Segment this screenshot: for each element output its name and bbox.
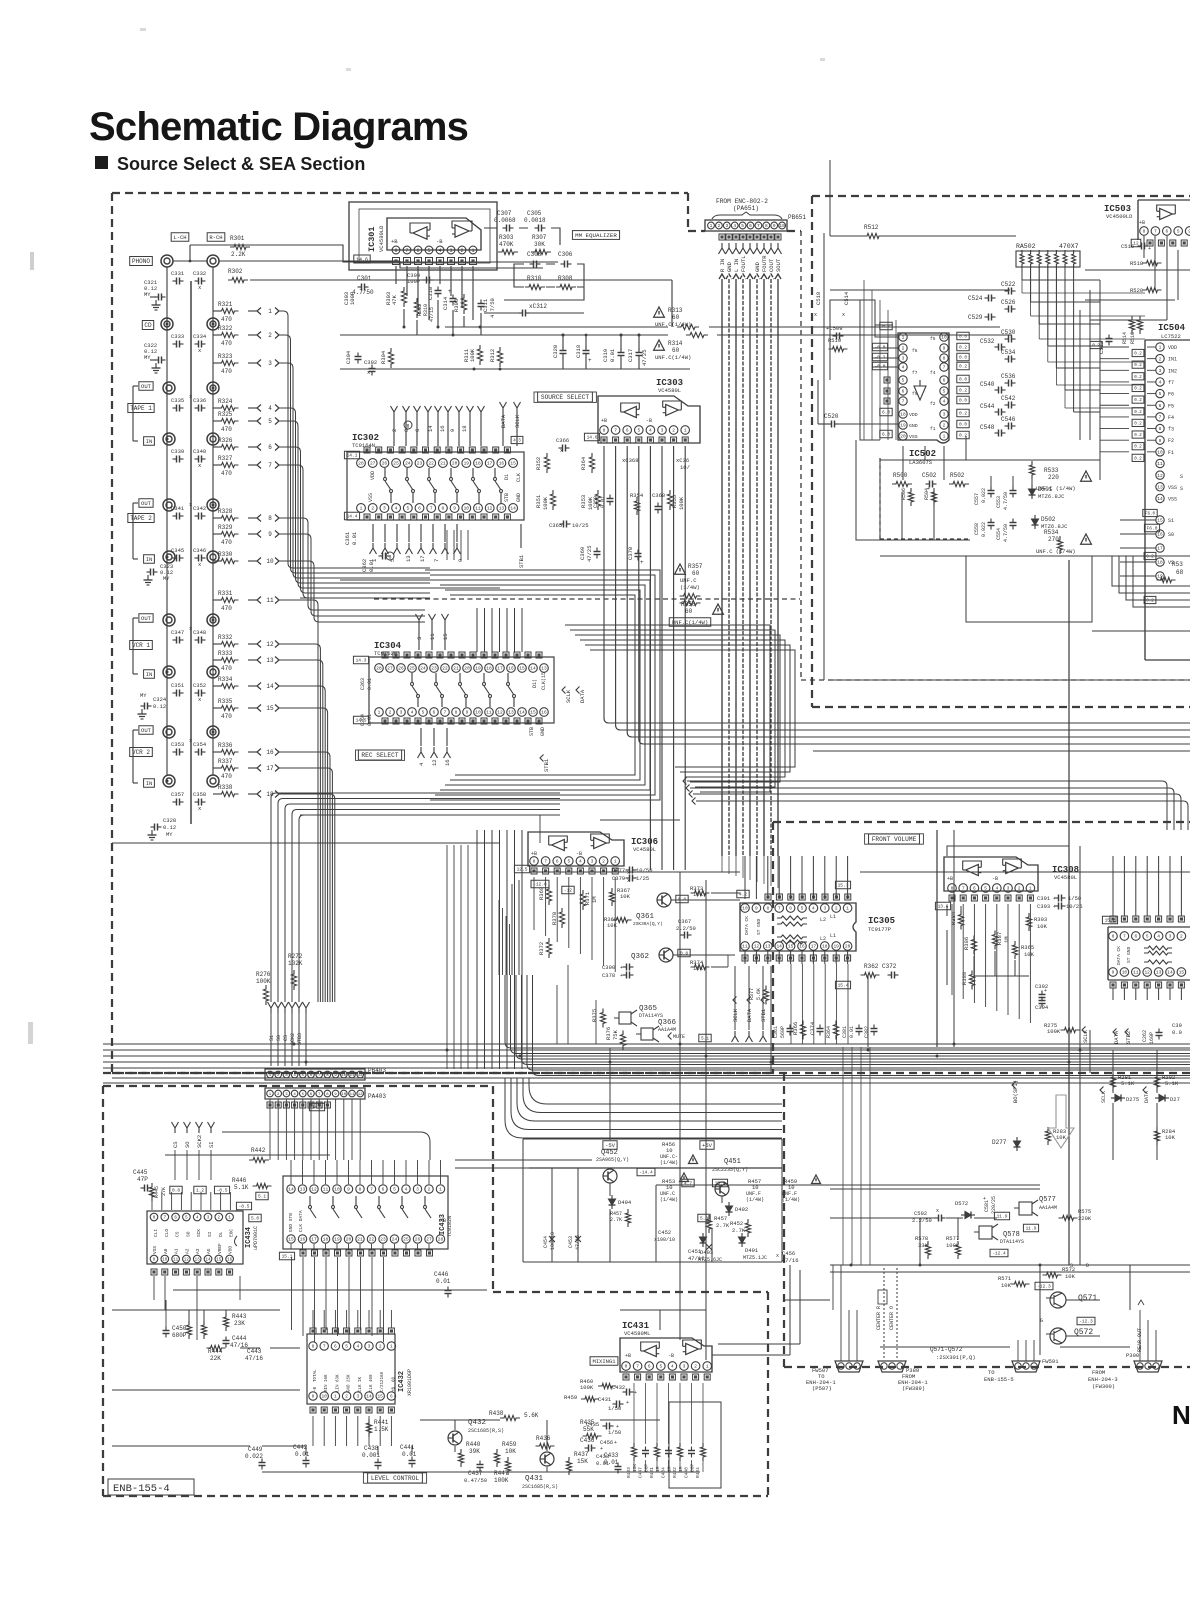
svg-text:+B: +B bbox=[440, 1218, 446, 1224]
svg-text:LC7522: LC7522 bbox=[1161, 333, 1181, 340]
svg-text:VDD: VDD bbox=[228, 1246, 234, 1254]
svg-text:IN1: IN1 bbox=[1168, 357, 1177, 363]
svg-text:0.01: 0.01 bbox=[295, 1451, 310, 1458]
svg-text:R504: R504 bbox=[924, 488, 930, 500]
svg-text:C333: C333 bbox=[171, 333, 184, 340]
resistor R386 bbox=[963, 936, 977, 955]
svg-text:7: 7 bbox=[433, 559, 440, 562]
resistor array RA502 470X7 bbox=[1016, 243, 1080, 268]
svg-text:1: 1 bbox=[710, 223, 713, 229]
svg-text:CLI: CLI bbox=[153, 1229, 159, 1237]
svg-text:C522: C522 bbox=[1001, 281, 1016, 288]
svg-text:47/16: 47/16 bbox=[688, 1255, 705, 1262]
svg-text:ENB-155-5: ENB-155-5 bbox=[984, 1376, 1014, 1383]
svg-text:DATA: DATA bbox=[579, 689, 586, 703]
svg-text:4: 4 bbox=[812, 906, 815, 912]
label ENB-155-4 bbox=[108, 1479, 194, 1495]
capacitor C346 bbox=[193, 547, 206, 568]
svg-text:Schematic Diagrams: Schematic Diagrams bbox=[89, 105, 468, 149]
svg-text:0.2: 0.2 bbox=[1134, 364, 1142, 368]
svg-text:10K: 10K bbox=[1001, 1282, 1012, 1289]
svg-text:0.0: 0.0 bbox=[959, 422, 967, 428]
wire PA403 drops bbox=[270, 1099, 360, 1160]
svg-text:C360: C360 bbox=[652, 492, 665, 499]
capacitor C362 0.01 bbox=[361, 553, 390, 573]
svg-text:4: 4 bbox=[1159, 380, 1162, 386]
svg-text:(1/4W): (1/4W) bbox=[680, 584, 700, 591]
TAPE 1 input label bbox=[128, 404, 154, 413]
capacitor C445 47P bbox=[133, 1169, 152, 1192]
svg-text:5.1K: 5.1K bbox=[1165, 1080, 1179, 1087]
capacitor C358 bbox=[193, 791, 206, 812]
svg-text:0.01: 0.01 bbox=[849, 1026, 855, 1038]
svg-text:R578: R578 bbox=[915, 1235, 928, 1242]
front volume section dashed frame bbox=[773, 822, 1190, 1073]
svg-text:PB403: PB403 bbox=[368, 1067, 386, 1074]
resistor R307 30K bbox=[531, 234, 551, 255]
IC302 top pin row bbox=[357, 459, 518, 468]
OUT label bbox=[133, 614, 153, 674]
svg-text:D: D bbox=[1086, 1263, 1089, 1269]
svg-text:24: 24 bbox=[392, 1237, 398, 1243]
cd jack R bbox=[207, 318, 219, 330]
svg-text:MIXING1: MIXING1 bbox=[592, 1358, 616, 1365]
svg-text:C357: C357 bbox=[171, 791, 184, 798]
svg-text:C557: C557 bbox=[974, 493, 980, 505]
resistor R283 10K bbox=[1045, 1127, 1066, 1145]
svg-text:2SK30A(Q,Y): 2SK30A(Q,Y) bbox=[633, 921, 663, 927]
svg-text:18: 18 bbox=[461, 425, 468, 432]
value box 5.1 bbox=[699, 1034, 711, 1042]
capacitor C301 0.01 bbox=[842, 1025, 863, 1039]
svg-text:+: + bbox=[620, 973, 623, 979]
svg-text:10: 10 bbox=[666, 1147, 673, 1154]
svg-text:GND: GND bbox=[909, 423, 918, 429]
svg-text:C532: C532 bbox=[980, 338, 995, 345]
svg-text:C361: C361 bbox=[344, 531, 351, 545]
svg-text:R502: R502 bbox=[950, 472, 965, 479]
capacitor C334 bbox=[193, 333, 207, 354]
wire bottom left bbox=[112, 1300, 300, 1390]
resistor R460 100K bbox=[580, 1378, 616, 1391]
svg-text:C449: C449 bbox=[248, 1446, 263, 1453]
svg-text:5.1: 5.1 bbox=[258, 1194, 266, 1200]
svg-text:TC9177P: TC9177P bbox=[868, 926, 891, 933]
svg-text:R571: R571 bbox=[998, 1275, 1012, 1282]
IC307 internal resistors bbox=[1144, 946, 1172, 964]
node arrow 8 bbox=[248, 515, 279, 523]
svg-text:R301: R301 bbox=[230, 235, 245, 242]
svg-text:x: x bbox=[776, 1253, 779, 1259]
svg-text:7: 7 bbox=[323, 1344, 326, 1350]
svg-text:8: 8 bbox=[455, 710, 458, 716]
svg-text:C446: C446 bbox=[434, 1271, 449, 1278]
scan speckle marks bbox=[28, 28, 825, 1044]
label SOURCE SELECT bbox=[534, 392, 596, 402]
svg-text:C361: C361 bbox=[773, 1026, 779, 1038]
IC304 top squares bbox=[353, 652, 542, 664]
capacitor C534 bbox=[1001, 349, 1016, 363]
svg-text:18: 18 bbox=[475, 461, 481, 467]
svg-text:68: 68 bbox=[1176, 569, 1184, 576]
svg-text:16K: 16K bbox=[325, 1374, 329, 1382]
svg-text:11: 11 bbox=[742, 944, 748, 950]
wire left trunk bbox=[167, 267, 213, 824]
svg-text:-8.5: -8.5 bbox=[239, 1204, 250, 1210]
svg-text:3: 3 bbox=[1159, 368, 1162, 374]
svg-text:D502: D502 bbox=[1041, 516, 1056, 523]
svg-text:C320: C320 bbox=[552, 345, 559, 358]
wire bottom mid horizontals bbox=[455, 1160, 592, 1168]
svg-text:28: 28 bbox=[358, 461, 364, 467]
svg-text:11: 11 bbox=[1133, 970, 1139, 976]
svg-text:C454: C454 bbox=[543, 1236, 549, 1248]
svg-text:C362: C362 bbox=[361, 559, 368, 572]
svg-text:F6: F6 bbox=[1168, 392, 1174, 398]
svg-text:F6.0: F6.0 bbox=[1147, 526, 1158, 532]
svg-text:CLO: CLO bbox=[164, 1229, 170, 1237]
svg-text:+B: +B bbox=[625, 1353, 631, 1359]
svg-text:C306: C306 bbox=[558, 251, 573, 258]
svg-text:14: 14 bbox=[205, 1259, 211, 1263]
svg-text:6: 6 bbox=[416, 248, 419, 254]
svg-text:9: 9 bbox=[153, 1259, 156, 1263]
svg-text:63K: 63K bbox=[336, 1374, 340, 1382]
svg-text:15: 15 bbox=[377, 1394, 383, 1400]
node arrow 10 bbox=[248, 558, 279, 566]
label L-CH bbox=[171, 233, 189, 242]
svg-text:30K: 30K bbox=[534, 241, 545, 248]
svg-text:x: x bbox=[627, 878, 630, 884]
svg-text:AG: AG bbox=[206, 1248, 212, 1254]
svg-text:14: 14 bbox=[1157, 496, 1163, 502]
resistor R276 100K bbox=[256, 971, 271, 1005]
svg-text:SCLK: SCLK bbox=[732, 1008, 739, 1022]
svg-text:C311: C311 bbox=[482, 298, 489, 312]
svg-text:FOUTR: FOUTR bbox=[761, 255, 768, 272]
resistor R435 55K bbox=[580, 1419, 602, 1439]
resistor R322 470 bbox=[213, 325, 239, 347]
svg-text:F1: F1 bbox=[1168, 450, 1174, 456]
section subtitle bbox=[95, 154, 365, 174]
svg-text:CS: CS bbox=[175, 1231, 181, 1237]
capacitor C443 47/16 bbox=[245, 1348, 263, 1362]
svg-text:7: 7 bbox=[405, 248, 408, 254]
TAPE 2 input label bbox=[128, 514, 154, 523]
capacitor C321 0.12 MY bbox=[144, 279, 166, 301]
svg-text:10: 10 bbox=[779, 223, 785, 229]
wire right board inner frame bbox=[824, 233, 1190, 680]
capacitor C368 bbox=[622, 457, 639, 464]
node arrow 15 bbox=[248, 705, 279, 713]
resistor R331 470 bbox=[213, 590, 239, 612]
resistor R453 10 UNF bbox=[660, 1173, 689, 1203]
svg-text:R364: R364 bbox=[826, 1026, 832, 1038]
capacitor C544 bbox=[980, 403, 1006, 416]
label +5V bbox=[700, 1141, 714, 1150]
svg-text:23K: 23K bbox=[234, 1320, 245, 1327]
svg-text:7: 7 bbox=[614, 428, 617, 434]
svg-text:R457: R457 bbox=[714, 1215, 727, 1222]
svg-text:470: 470 bbox=[221, 605, 232, 612]
IC307 squares bbox=[1102, 916, 1184, 988]
svg-text:0.2: 0.2 bbox=[1134, 457, 1142, 461]
svg-text:6: 6 bbox=[268, 444, 272, 451]
resistor R518 bbox=[1130, 260, 1162, 267]
capacitor C319 0.01 bbox=[602, 348, 625, 362]
diode D492 bbox=[726, 1202, 749, 1216]
wire IC308 loops bbox=[947, 846, 1069, 985]
svg-text:OUT: OUT bbox=[141, 615, 152, 622]
svg-text:1: 1 bbox=[943, 434, 946, 440]
wire channel fan bbox=[279, 752, 330, 1002]
wire misc crossing verticals bbox=[843, 1047, 870, 1265]
node arrow 17 bbox=[248, 765, 279, 773]
value box near Q362 bbox=[678, 949, 690, 957]
IC431 pin row bbox=[622, 1362, 712, 1371]
node arrow 18 bbox=[248, 791, 279, 799]
IC433 inner switches bbox=[309, 1196, 432, 1218]
svg-text:17: 17 bbox=[497, 666, 503, 672]
transistor Q361 bbox=[633, 893, 671, 927]
svg-text:8: 8 bbox=[153, 1217, 156, 1221]
capacitor C333 bbox=[171, 333, 184, 348]
node arrow 16 bbox=[248, 749, 279, 757]
capacitor C512 bbox=[1090, 335, 1112, 355]
svg-text:14: 14 bbox=[776, 944, 782, 950]
capacitor C546 bbox=[1001, 416, 1016, 430]
svg-text:IN: IN bbox=[146, 556, 153, 563]
svg-text:2: 2 bbox=[835, 906, 838, 912]
svg-text:8: 8 bbox=[359, 1187, 362, 1193]
svg-text:GND: GND bbox=[348, 1384, 352, 1392]
svg-text:60: 60 bbox=[672, 314, 680, 321]
svg-text:1: 1 bbox=[471, 248, 474, 254]
connector PB651 from ENC-802-2 bbox=[705, 198, 806, 231]
svg-text:470: 470 bbox=[221, 316, 232, 323]
capacitor C363 0.01 bbox=[360, 678, 373, 690]
svg-text:x: x bbox=[367, 369, 371, 376]
svg-text:TO: TO bbox=[988, 1369, 995, 1376]
svg-text:5.1K: 5.1K bbox=[1121, 1080, 1135, 1087]
resistor R352 bbox=[535, 453, 550, 473]
svg-text:6: 6 bbox=[1165, 229, 1168, 235]
svg-text:470: 470 bbox=[221, 426, 232, 433]
svg-text:C433: C433 bbox=[596, 1453, 609, 1460]
svg-text:5: 5 bbox=[185, 1217, 188, 1221]
label BO SPI bbox=[1012, 1080, 1019, 1103]
IC433 plus B bbox=[440, 1218, 446, 1224]
capacitor C305 0.0018 bbox=[524, 210, 546, 232]
op-amp IC301b bbox=[452, 221, 472, 237]
svg-text:14: 14 bbox=[530, 666, 536, 672]
svg-text:0.01: 0.01 bbox=[609, 348, 616, 362]
svg-text:+: + bbox=[614, 1440, 617, 1446]
svg-text:C432: C432 bbox=[612, 1384, 625, 1391]
svg-text:1: 1 bbox=[614, 859, 617, 865]
svg-text:10: 10 bbox=[162, 1259, 168, 1263]
svg-text:100K: 100K bbox=[469, 348, 476, 362]
svg-text:2: 2 bbox=[718, 223, 721, 229]
capacitor C342 bbox=[193, 505, 206, 520]
svg-text:6: 6 bbox=[943, 378, 946, 384]
svg-text:5.1: 5.1 bbox=[701, 1036, 709, 1042]
svg-text:C365: C365 bbox=[549, 522, 562, 529]
svg-text:16: 16 bbox=[227, 1259, 233, 1263]
svg-text:25: 25 bbox=[409, 666, 415, 672]
svg-text:R335: R335 bbox=[218, 698, 233, 705]
resistor R444 22K bbox=[207, 1345, 226, 1362]
svg-text:2.2/50: 2.2/50 bbox=[676, 925, 696, 932]
capacitor C307 0.0068 bbox=[494, 210, 516, 232]
svg-text:12: 12 bbox=[1157, 473, 1163, 479]
svg-text:2: 2 bbox=[218, 1217, 221, 1221]
svg-text:23: 23 bbox=[431, 666, 437, 672]
svg-text:C437: C437 bbox=[468, 1470, 483, 1477]
svg-text:FROM: FROM bbox=[1092, 1369, 1105, 1376]
svg-text:18: 18 bbox=[822, 944, 828, 950]
svg-text:FROM ENC-802-2: FROM ENC-802-2 bbox=[716, 198, 768, 205]
op-amp IC301a bbox=[410, 223, 430, 239]
svg-text:R314: R314 bbox=[668, 340, 683, 347]
svg-text:R331: R331 bbox=[218, 590, 233, 597]
svg-text:DATA: DATA bbox=[1144, 1091, 1150, 1103]
svg-text:C530: C530 bbox=[1001, 329, 1016, 336]
svg-text:R308: R308 bbox=[558, 275, 573, 282]
svg-text:A2: A2 bbox=[184, 1248, 190, 1254]
svg-text:R312: R312 bbox=[489, 349, 496, 362]
wire channel fan bbox=[279, 686, 325, 1002]
resistor R311 100K bbox=[463, 345, 483, 365]
resistor R578 33K bbox=[915, 1235, 931, 1259]
svg-text:25: 25 bbox=[403, 1237, 409, 1243]
resistor R337 470 bbox=[213, 758, 239, 780]
svg-text:15: 15 bbox=[519, 666, 525, 672]
resistor R338 bbox=[213, 784, 239, 797]
wire left verticals IC306 region bbox=[499, 880, 519, 975]
svg-text:C456: C456 bbox=[782, 1250, 795, 1257]
svg-text:C441: C441 bbox=[400, 1444, 415, 1451]
svg-text:S: S bbox=[1070, 1263, 1073, 1269]
IC304 D1 CLK labels bbox=[532, 672, 547, 690]
capacitor C436 bbox=[580, 1437, 603, 1452]
svg-text:10: 10 bbox=[321, 1394, 327, 1400]
capacitor C444 47/16 bbox=[223, 1335, 249, 1349]
svg-text:REC SELECT: REC SELECT bbox=[361, 752, 398, 759]
svg-text:0.01: 0.01 bbox=[367, 678, 373, 690]
svg-text:C305: C305 bbox=[527, 210, 542, 217]
resistor R351 100K bbox=[535, 490, 556, 510]
svg-text:8: 8 bbox=[312, 1394, 315, 1400]
svg-text:14: 14 bbox=[266, 683, 274, 690]
svg-text:5: 5 bbox=[1177, 229, 1180, 235]
svg-text:UNF.C (1/4W): UNF.C (1/4W) bbox=[1036, 548, 1076, 555]
svg-text:19: 19 bbox=[833, 944, 839, 950]
svg-text:VC4500LD: VC4500LD bbox=[1106, 213, 1133, 220]
svg-text:1/25: 1/25 bbox=[636, 875, 649, 882]
svg-text:FOUTL: FOUTL bbox=[740, 255, 747, 272]
svg-text:4: 4 bbox=[995, 886, 998, 892]
svg-text:xC36: xC36 bbox=[676, 457, 689, 464]
svg-text:VCR 2: VCR 2 bbox=[132, 749, 150, 756]
svg-text:DATA CK: DATA CK bbox=[1116, 946, 1122, 965]
node arrow 5 bbox=[248, 418, 279, 426]
svg-text:470K: 470K bbox=[499, 241, 514, 248]
svg-text:C324: C324 bbox=[153, 696, 167, 703]
signal names RIN GND LIN FOUTL GND FOUTR COUT SOUT bbox=[719, 255, 782, 272]
svg-text:10: 10 bbox=[475, 710, 481, 716]
svg-text:100P: 100P bbox=[349, 292, 356, 305]
svg-text:2.2K: 2.2K bbox=[231, 251, 246, 258]
label Q571-Q572 2SK301 bbox=[930, 1346, 976, 1361]
svg-text:1.2: 1.2 bbox=[196, 1188, 204, 1194]
svg-text:Q366: Q366 bbox=[658, 1019, 677, 1027]
jack in R bbox=[207, 666, 219, 678]
svg-text:12: 12 bbox=[497, 710, 503, 716]
CD input label bbox=[142, 321, 153, 330]
IC305 top squares bbox=[737, 890, 851, 900]
wire bus y327 bbox=[445, 326, 1000, 328]
IC304 top pin row bbox=[375, 664, 549, 673]
svg-text:RIN: RIN bbox=[325, 1384, 329, 1392]
svg-text:R510: R510 bbox=[828, 337, 841, 344]
capacitor C361 560P bbox=[773, 1025, 794, 1039]
svg-text:12: 12 bbox=[1144, 970, 1150, 976]
svg-text:1/50: 1/50 bbox=[608, 1405, 621, 1412]
ic IC305 TC9177P bbox=[740, 903, 895, 951]
svg-text:C453: C453 bbox=[568, 1236, 574, 1248]
jack out R bbox=[207, 382, 219, 394]
resistor R364b bbox=[826, 1021, 839, 1040]
IC432 pin labels bbox=[314, 1369, 396, 1382]
svg-text:1: 1 bbox=[1029, 886, 1032, 892]
IC308 pin row bbox=[947, 876, 1035, 892]
resistor R537 680 bbox=[1157, 561, 1184, 583]
svg-text:D491: D491 bbox=[745, 1247, 759, 1254]
IC504 lower pins bbox=[1156, 516, 1174, 580]
svg-text:100/10: 100/10 bbox=[550, 1232, 556, 1250]
capacitor C310 bbox=[427, 287, 442, 301]
svg-text:GND: GND bbox=[726, 261, 733, 272]
IN label bbox=[144, 437, 155, 446]
IC305 bottom pin row bbox=[741, 942, 852, 951]
svg-text:R303: R303 bbox=[1034, 916, 1047, 923]
svg-text:5: 5 bbox=[801, 906, 804, 912]
svg-text:R366: R366 bbox=[792, 1022, 799, 1035]
svg-text:A1: A1 bbox=[174, 1248, 180, 1254]
svg-text:R362 C372: R362 C372 bbox=[864, 963, 897, 970]
svg-text:3: 3 bbox=[449, 248, 452, 254]
wire IC305 verticals top bbox=[745, 856, 848, 899]
svg-text:12: 12 bbox=[487, 506, 493, 512]
wire mid band buses bbox=[103, 1044, 1190, 1083]
wire IC433 top stubs bbox=[291, 1160, 441, 1184]
capacitor C302b bbox=[864, 1025, 878, 1039]
svg-text:1: 1 bbox=[378, 710, 381, 716]
svg-text:-12.6: -12.6 bbox=[533, 882, 547, 888]
svg-text:VSS: VSS bbox=[1168, 485, 1177, 491]
svg-text:13: 13 bbox=[765, 944, 771, 950]
svg-text:3: 3 bbox=[943, 412, 946, 418]
svg-text:VSS: VSS bbox=[909, 434, 918, 440]
svg-text:C341: C341 bbox=[171, 505, 185, 512]
svg-text:ENB-155-4: ENB-155-4 bbox=[113, 1483, 170, 1495]
svg-text:f1: f1 bbox=[930, 426, 936, 432]
svg-text:7: 7 bbox=[1123, 934, 1126, 940]
svg-text:102K: 102K bbox=[288, 960, 303, 967]
wire phono R bus bbox=[219, 261, 543, 268]
capacitor C520 bbox=[824, 413, 839, 428]
